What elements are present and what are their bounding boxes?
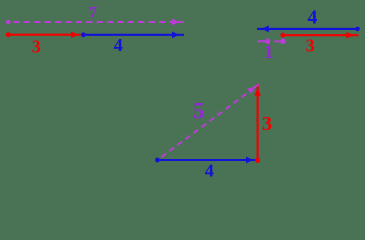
svg-text:3: 3: [262, 113, 272, 135]
vector 3 red arrow (top-right): [280, 32, 358, 39]
vector 4 blue arrow pointing left (top-right): [257, 26, 360, 33]
svg-text:1: 1: [264, 42, 274, 63]
vector 3 red arrow (top-left): [6, 31, 81, 38]
svg-text:3: 3: [32, 36, 41, 56]
svg-text:4: 4: [308, 7, 318, 29]
svg-text:4: 4: [114, 35, 123, 55]
triangle vector 4 blue arrow (bottom): [155, 157, 256, 164]
vector sum 7 dashed arrow (top-left): [6, 19, 184, 26]
svg-text:7: 7: [89, 4, 97, 21]
svg-text:3: 3: [306, 36, 315, 56]
triangle vector 3 red arrow vertical (bottom): [254, 84, 261, 163]
vector 4 blue arrow (top-left): [81, 31, 184, 38]
svg-text:4: 4: [205, 160, 214, 180]
triangle hypotenuse 5 dashed arrow (bottom): [161, 84, 258, 157]
svg-text:5: 5: [193, 99, 205, 124]
vector difference 1 dashed arrow pointing left (top-right): [257, 38, 285, 45]
